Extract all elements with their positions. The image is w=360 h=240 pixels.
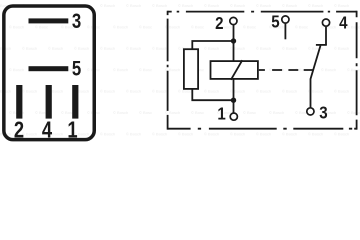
terminal 5 contact stub: [284, 23, 286, 39]
schematic enclosure left border: [167, 11, 169, 130]
wire coil to terminal 1: [233, 79, 235, 113]
svg-text:4: 4: [42, 118, 53, 143]
svg-text:2: 2: [14, 118, 24, 143]
svg-text:3: 3: [72, 10, 81, 33]
pin 3 label: [72, 10, 81, 33]
junction top: [231, 38, 236, 43]
pin 5 label: [72, 58, 82, 81]
svg-text:4: 4: [339, 12, 348, 33]
svg-text:2: 2: [215, 13, 223, 34]
wire terminal 2 to coil: [233, 25, 235, 61]
relay housing outline: [4, 6, 94, 140]
svg-text:3: 3: [319, 102, 327, 123]
terminal 4: [322, 19, 329, 26]
svg-text:1: 1: [217, 103, 225, 124]
terminal 4 contact tick: [316, 44, 327, 46]
svg-text:5: 5: [271, 11, 279, 32]
pin 1 blade: [72, 85, 78, 119]
schematic enclosure bottom border: [168, 128, 357, 130]
terminal 5: [282, 16, 289, 23]
wire resistor to junction bottom: [192, 89, 233, 100]
terminal 1: [230, 113, 237, 120]
terminal 5 label: [271, 11, 279, 32]
pin 4 label: [42, 118, 53, 143]
terminal 4 contact stem: [325, 27, 327, 45]
pin 2 label: [14, 118, 24, 143]
pin 2 blade: [16, 85, 22, 119]
wire branch to resistor: [192, 41, 233, 49]
pin 3 blade: [29, 18, 69, 23]
pin 1 label: [67, 118, 77, 143]
terminal 2: [230, 17, 237, 24]
terminal 4 label: [339, 12, 348, 33]
terminal 3: [307, 108, 314, 115]
schematic enclosure top border: [168, 11, 357, 13]
terminal 2 label: [215, 13, 223, 34]
mechanical link (dashed): [259, 69, 314, 71]
pin 4 blade: [46, 85, 52, 119]
switch armature: [311, 46, 321, 108]
terminal 1 label: [217, 103, 225, 124]
schematic enclosure right border: [356, 11, 358, 130]
coil diagonal: [231, 60, 242, 80]
resistor: [184, 49, 198, 89]
relay coil: [211, 61, 258, 79]
junction bottom: [231, 98, 236, 103]
pin 5 blade: [29, 66, 69, 71]
svg-text:5: 5: [72, 58, 82, 81]
terminal 3 label: [319, 102, 327, 123]
svg-text:1: 1: [67, 118, 77, 143]
